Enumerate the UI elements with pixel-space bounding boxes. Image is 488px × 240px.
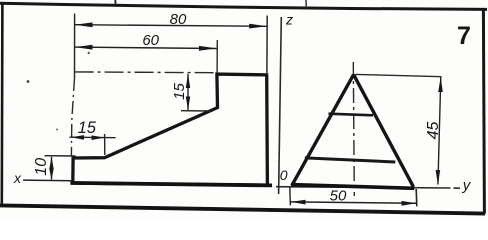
dimension 15 lower line <box>70 136 116 139</box>
tick above border B <box>305 0 307 8</box>
extension line for 15 step <box>181 110 211 112</box>
dimension 15 lower right arrow <box>92 135 105 140</box>
svg-text:10: 10 <box>33 158 50 176</box>
left view outline <box>73 74 268 185</box>
paper speck A <box>88 52 90 54</box>
svg-text:60: 60 <box>142 32 159 49</box>
extension line for 15 lower <box>104 134 106 155</box>
svg-text:x: x <box>13 170 22 186</box>
extension line top for 45 <box>356 74 442 76</box>
tick above border A <box>114 0 116 5</box>
triangle right slope <box>354 75 414 187</box>
dimension 80 line <box>75 25 268 27</box>
dimension 10 down arrow <box>49 169 53 180</box>
dimension 50 right arrow <box>402 201 417 206</box>
dimension 10 up arrow <box>49 157 53 169</box>
dimension 45 line <box>438 77 441 185</box>
triangle internal line 2 <box>305 158 396 162</box>
paper speck C <box>56 129 58 131</box>
z axis <box>279 17 282 194</box>
dimension 50 left arrow <box>291 200 306 205</box>
dimension 50 line <box>291 202 417 203</box>
dimension 15 lower left arrow <box>71 135 84 140</box>
dimension 60 line <box>75 47 217 48</box>
svg-text:0: 0 <box>280 167 288 183</box>
svg-text:15: 15 <box>78 119 97 137</box>
dimension 80 right arrow <box>249 24 267 29</box>
dimension 45 down arrow <box>436 170 441 185</box>
dimension 15 step down arrow <box>186 97 190 111</box>
svg-text:15: 15 <box>171 83 188 100</box>
dimension 10 line <box>51 157 53 180</box>
centerline of top edge <box>75 71 217 74</box>
extension line right for 50 <box>415 189 418 206</box>
svg-text:45: 45 <box>425 122 442 140</box>
dimension 60 right arrow <box>199 46 217 51</box>
triangle base <box>291 185 414 189</box>
dimension 45 up arrow <box>438 77 443 92</box>
extension line left upper (solid) <box>74 14 76 79</box>
dimension 15 step up arrow <box>186 74 190 88</box>
x axis <box>23 179 71 182</box>
dimension 15 step line <box>187 74 189 110</box>
paper speck B <box>27 80 30 83</box>
left view bottom edge (thicker) <box>70 183 272 186</box>
dimension 60 left arrow <box>75 45 93 50</box>
extension line right for 80 <box>266 16 268 74</box>
dimension 80 left arrow <box>75 22 93 27</box>
sheet border left <box>0 2 3 206</box>
triangle left slope <box>292 75 354 186</box>
sheet border top <box>0 3 487 9</box>
triangle internal line 1 <box>329 114 374 116</box>
svg-text:z: z <box>285 12 293 28</box>
extension line left lower (dash-dot) <box>71 78 74 156</box>
svg-text:7: 7 <box>457 22 471 50</box>
triangle centerline <box>353 62 354 196</box>
extension line for 10 <box>45 155 76 157</box>
svg-text:80: 80 <box>170 11 187 28</box>
extension line left for 50 <box>289 188 292 206</box>
sheet border bottom <box>0 205 485 213</box>
svg-text:50: 50 <box>330 187 347 204</box>
y axis end dash <box>454 187 461 189</box>
y axis <box>276 187 451 188</box>
extension line for 60 <box>216 40 218 73</box>
sheet border right <box>483 9 484 214</box>
